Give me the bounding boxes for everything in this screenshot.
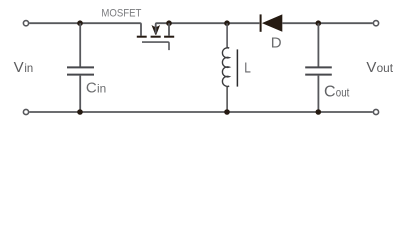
wire diode to Vout (282, 22, 373, 24)
terminal bottom-right (373, 109, 378, 114)
capacitor Cin lead bottom (79, 76, 81, 112)
inductor core bar (236, 49, 238, 86)
svg-text:out: out (377, 61, 394, 75)
junction dot inductor bottom (224, 109, 230, 115)
capacitor Cout plates (305, 66, 332, 68)
junction dot MOSFET source node (166, 20, 172, 26)
MOSFET Q1 gate (142, 42, 169, 50)
MOSFET Q1 source stub (168, 23, 170, 36)
wire bottom rail (29, 111, 373, 113)
svg-text:D: D (271, 35, 282, 52)
diode D triangle (262, 14, 282, 31)
junction dot Cout bottom (316, 109, 322, 115)
MOSFET Q1 body arrow (152, 25, 161, 35)
capacitor Cout lead bottom (317, 76, 319, 112)
MOSFET Q1 channel bar right (164, 36, 174, 38)
svg-text:in: in (24, 61, 33, 75)
junction dot Cin bottom (77, 109, 83, 115)
wire top-left (Vin to MOSFET drain) (29, 23, 141, 36)
diode D cathode bar (260, 14, 262, 31)
capacitor Cin plates (67, 66, 94, 68)
capacitor Cin lead top (79, 23, 81, 66)
junction dot inductor top (224, 20, 230, 26)
terminal Vout top-right (373, 21, 378, 26)
svg-text:V: V (366, 59, 376, 76)
MOSFET Q1 channel bar left (137, 36, 147, 38)
junction dot Cin top (77, 20, 83, 26)
svg-text:in: in (97, 82, 106, 96)
inductor L coil (222, 47, 229, 112)
inductor L lead top (226, 23, 228, 47)
svg-text:out: out (336, 86, 350, 100)
capacitor Cout lead top (317, 23, 319, 66)
terminal bottom-left (23, 109, 28, 114)
svg-text:C: C (86, 80, 97, 97)
MOSFET Q1 channel bar middle (151, 36, 161, 38)
wire MOSFET source to diode (156, 23, 260, 33)
junction dot Cout top (316, 20, 322, 26)
svg-text:MOSFET: MOSFET (101, 8, 141, 20)
svg-text:V: V (14, 59, 24, 76)
svg-text:C: C (324, 84, 336, 101)
terminal Vin top-left (23, 21, 28, 26)
svg-text:L: L (244, 59, 251, 76)
